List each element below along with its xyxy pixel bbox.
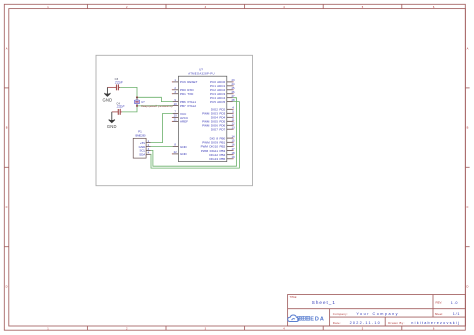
svg-text:20: 20 xyxy=(174,114,178,118)
svg-text:PWM DIG9 PB1: PWM DIG9 PB1 xyxy=(202,141,225,145)
svg-text:Sheet:: Sheet: xyxy=(435,312,443,316)
svg-text:AVCC: AVCC xyxy=(180,116,189,120)
svg-text:22: 22 xyxy=(174,150,178,154)
svg-text:6: 6 xyxy=(232,114,234,118)
svg-text:24: 24 xyxy=(231,82,235,86)
svg-text:B: B xyxy=(467,126,469,130)
svg-text:PB7 XTAL2: PB7 XTAL2 xyxy=(180,104,196,108)
svg-text:VCC: VCC xyxy=(180,112,187,116)
svg-text:17: 17 xyxy=(231,147,235,151)
svg-text:12: 12 xyxy=(231,122,235,126)
svg-text:11: 11 xyxy=(232,118,235,122)
svg-text:15: 15 xyxy=(231,139,235,143)
svg-text:7: 7 xyxy=(174,110,176,114)
svg-text:U?: U? xyxy=(199,68,203,72)
svg-text:8: 8 xyxy=(174,143,176,147)
svg-text:PWM DIG6 PD6: PWM DIG6 PD6 xyxy=(202,124,225,128)
svg-text:PC2 ADC2: PC2 ADC2 xyxy=(210,88,225,92)
svg-text:+5V: +5V xyxy=(140,141,145,145)
svg-text:GND: GND xyxy=(180,145,188,149)
svg-text:1.0: 1.0 xyxy=(451,301,458,305)
svg-text:DIG4 PD4: DIG4 PD4 xyxy=(211,116,226,120)
svg-text:DIG13 PB5: DIG13 PB5 xyxy=(209,157,225,161)
svg-text:PWM DIG11 PB3: PWM DIG11 PB3 xyxy=(201,149,226,153)
svg-text:REV:: REV: xyxy=(436,301,443,305)
svg-text:C: C xyxy=(467,205,469,209)
svg-text:DIG7 PD7: DIG7 PD7 xyxy=(211,128,226,132)
svg-text:PC6 RESET: PC6 RESET xyxy=(180,80,197,84)
svg-text:9: 9 xyxy=(174,98,176,102)
svg-text:PWM DIG3 PD3: PWM DIG3 PD3 xyxy=(202,112,225,116)
svg-text:21: 21 xyxy=(174,118,178,122)
svg-text:Date:: Date: xyxy=(333,321,341,325)
svg-text:4: 4 xyxy=(232,106,234,110)
svg-text:25: 25 xyxy=(231,86,235,90)
svg-text:PD1 TXD: PD1 TXD xyxy=(180,92,194,96)
svg-text:nikitaberezovskij: nikitaberezovskij xyxy=(411,321,460,325)
svg-text:PD0 RXD: PD0 RXD xyxy=(180,88,194,92)
svg-text:EDA: EDA xyxy=(310,317,325,323)
svg-text:PC1 ADC1: PC1 ADC1 xyxy=(210,84,225,88)
svg-text:3: 3 xyxy=(174,90,176,94)
svg-text:Drawn By:: Drawn By: xyxy=(388,321,405,325)
svg-text:Sheet_1: Sheet_1 xyxy=(312,300,336,305)
svg-text:1: 1 xyxy=(174,78,176,82)
svg-text:SDA: SDA xyxy=(139,153,145,157)
svg-text:BME280: BME280 xyxy=(135,134,146,138)
svg-text:PWM DIG5 PD5: PWM DIG5 PD5 xyxy=(202,120,225,124)
svg-text:PWM DIG10 PB2: PWM DIG10 PB2 xyxy=(201,145,226,149)
svg-text:PC0 ADC0: PC0 ADC0 xyxy=(210,80,225,84)
svg-text:10: 10 xyxy=(174,102,178,106)
svg-text:19: 19 xyxy=(231,155,235,159)
svg-text:5: 5 xyxy=(232,110,234,114)
svg-text:AREF: AREF xyxy=(180,120,188,124)
svg-text:P1: P1 xyxy=(138,130,142,134)
svg-text:C: C xyxy=(6,205,8,209)
svg-text:Кварцевый резонатор: Кварцевый резонатор xyxy=(141,104,173,108)
svg-text:PC3 ADC3: PC3 ADC3 xyxy=(210,92,225,96)
svg-text:A: A xyxy=(467,46,469,50)
svg-text:13: 13 xyxy=(231,125,235,129)
svg-text:D: D xyxy=(467,284,469,288)
svg-text:22pF: 22pF xyxy=(116,105,126,109)
svg-text:DIG12 PB4: DIG12 PB4 xyxy=(209,153,225,157)
svg-text:GND: GND xyxy=(102,97,112,102)
svg-text:18: 18 xyxy=(231,151,235,155)
svg-text:14: 14 xyxy=(231,134,235,138)
svg-text:GND: GND xyxy=(139,145,147,149)
svg-text:PB6 XTAL1: PB6 XTAL1 xyxy=(180,100,196,104)
svg-text:SCL: SCL xyxy=(139,149,145,153)
svg-text:2: 2 xyxy=(174,86,176,90)
svg-text:B: B xyxy=(6,126,8,130)
svg-text:Your Company: Your Company xyxy=(356,312,399,316)
svg-text:A: A xyxy=(6,46,8,50)
svg-text:GND: GND xyxy=(107,124,117,129)
svg-text:28: 28 xyxy=(231,98,235,102)
svg-text:GND: GND xyxy=(180,152,188,156)
svg-text:TITLE:: TITLE: xyxy=(290,296,298,299)
svg-text:PC4 ADC4: PC4 ADC4 xyxy=(210,96,225,100)
svg-text:1/1: 1/1 xyxy=(453,312,460,316)
svg-text:22pF: 22pF xyxy=(114,80,124,84)
svg-text:27: 27 xyxy=(231,94,235,98)
svg-text:Company:: Company: xyxy=(333,312,348,316)
svg-text:U?: U? xyxy=(141,100,145,104)
svg-text:ATMEGA328P-PU: ATMEGA328P-PU xyxy=(188,72,214,76)
svg-text:DIG 8 PB0: DIG 8 PB0 xyxy=(210,136,226,140)
svg-text:DIG2 PD2: DIG2 PD2 xyxy=(211,108,226,112)
svg-text:23: 23 xyxy=(231,78,235,82)
svg-text:D: D xyxy=(6,284,8,288)
svg-text:26: 26 xyxy=(231,90,235,94)
svg-text:PC5 ADC5: PC5 ADC5 xyxy=(210,100,225,104)
svg-text:16: 16 xyxy=(231,143,235,147)
svg-text:2022-11-10: 2022-11-10 xyxy=(350,321,381,325)
